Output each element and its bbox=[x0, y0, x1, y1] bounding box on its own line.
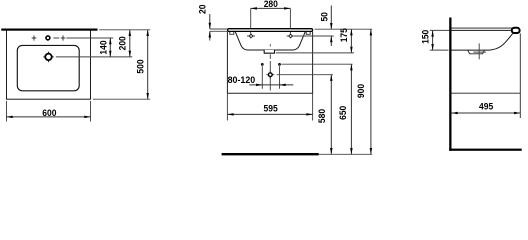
fixing hole left bbox=[261, 64, 263, 66]
wall thick line bbox=[449, 18, 451, 151]
fixing hole right bbox=[279, 64, 281, 66]
ext line rim level right bbox=[315, 28, 373, 30]
drain outlet centerline bbox=[269, 44, 271, 90]
dimension 500 bbox=[136, 30, 149, 99]
svg-text:200: 200 bbox=[118, 36, 128, 50]
drain box side bbox=[468, 50, 485, 54]
dimension 595 bbox=[227, 103, 312, 115]
svg-text:280: 280 bbox=[264, 0, 278, 9]
plus mark right bbox=[61, 35, 66, 40]
svg-text:500: 500 bbox=[136, 59, 146, 73]
svg-text:50: 50 bbox=[320, 12, 330, 22]
ext verticals 600 bbox=[7, 101, 91, 122]
svg-text:140: 140 bbox=[98, 40, 108, 54]
dimension 150 bbox=[420, 30, 434, 50]
outer rect body bbox=[7, 30, 91, 99]
plus mark left bbox=[32, 35, 37, 40]
svg-text:650: 650 bbox=[338, 106, 348, 120]
dimension 20 bbox=[197, 4, 227, 40]
left tab bbox=[230, 32, 234, 35]
floor thick line side bbox=[449, 149, 522, 151]
rim front nose bbox=[512, 28, 520, 33]
cabinet outline bbox=[227, 32, 312, 94]
ext line 650 (fixing hole level) bbox=[281, 63, 352, 65]
dimension 495 bbox=[452, 102, 521, 115]
ceramic top line bbox=[449, 27, 513, 29]
ext line 580 (drain outlet level) bbox=[277, 74, 333, 76]
svg-text:595: 595 bbox=[264, 103, 278, 113]
svg-text:580: 580 bbox=[317, 109, 327, 123]
dimension 200 bbox=[118, 30, 131, 57]
drain box bbox=[264, 50, 274, 53]
ext line 175 bottom (drain box level) bbox=[276, 52, 354, 54]
cabinet bottom side bbox=[452, 92, 521, 94]
drain crosshair side bbox=[473, 43, 486, 59]
ext verticals 595 bbox=[227, 93, 312, 120]
ext lines 150 bbox=[430, 30, 450, 50]
ext line bottom bbox=[93, 98, 150, 100]
svg-text:600: 600 bbox=[42, 108, 56, 118]
svg-text:80-120: 80-120 bbox=[228, 75, 256, 85]
tap hole diamond right bbox=[287, 35, 295, 37]
fixing hole centerlines bbox=[262, 66, 279, 88]
svg-text:495: 495 bbox=[479, 102, 493, 112]
ext line top bbox=[99, 29, 150, 31]
ext verticals 280 bbox=[251, 8, 291, 38]
dimension 175 bbox=[339, 28, 353, 53]
drain symbol bbox=[43, 52, 54, 63]
dimension 50 bbox=[320, 6, 333, 47]
faucet hole bbox=[45, 35, 51, 41]
dimension 900 bbox=[356, 29, 372, 154]
drain centerline bbox=[56, 56, 132, 58]
svg-text:150: 150 bbox=[420, 30, 430, 44]
dimension 650 bbox=[338, 64, 352, 154]
dimension 80-120 bbox=[249, 84, 293, 87]
dimension 580 bbox=[317, 75, 333, 155]
right tab bbox=[306, 32, 310, 35]
basin rounded rect bbox=[17, 45, 79, 90]
svg-text:20: 20 bbox=[197, 4, 207, 14]
rim capsule bbox=[228, 29, 313, 32]
drain outlet crosshair bbox=[266, 71, 274, 79]
faucet centerline bbox=[53, 37, 113, 39]
dimension 280 bbox=[251, 0, 291, 10]
floor line thick bbox=[222, 153, 319, 155]
floor line thin extension bbox=[319, 153, 373, 155]
ceramic underside bbox=[452, 33, 514, 50]
tap hole diamond left bbox=[247, 35, 255, 37]
ext line 50 (tap hole level) bbox=[295, 35, 334, 37]
cabinet front / ext line bbox=[519, 33, 521, 118]
back edge thick bar bbox=[1, 29, 97, 31]
svg-text:175: 175 bbox=[339, 28, 349, 42]
bowl outline bbox=[235, 32, 305, 50]
dimension 600 bbox=[7, 108, 91, 118]
svg-text:900: 900 bbox=[356, 84, 366, 98]
dimension 140 bbox=[98, 38, 111, 57]
